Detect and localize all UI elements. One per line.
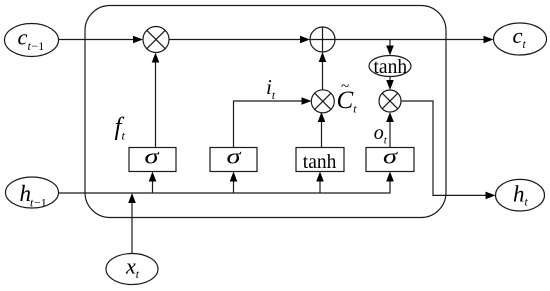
arrowhead up into tanh box [316, 172, 324, 182]
node h_t-1 ellipse [6, 177, 59, 208]
svg-text:~: ~ [341, 79, 349, 95]
wire tanh ellipse down to mult2 [389, 77, 391, 81]
svg-text:it: it [266, 75, 276, 102]
cell body rounded rectangle [85, 6, 446, 218]
arrowhead up into sigma3 box [386, 172, 394, 182]
wire tanh-box up to mult3 [321, 122, 323, 148]
wire c-line: mult1 to plus [169, 39, 301, 41]
svg-text:tanh: tanh [374, 57, 408, 78]
arrowhead into mult3 left [302, 97, 312, 105]
gate box sigma3 [366, 148, 414, 172]
arrowhead up into sigma2 box [230, 172, 238, 182]
node c_t-1 ellipse [5, 24, 59, 57]
arrowhead up into mult3 from tanh box [318, 112, 326, 122]
arrowhead into mult1 [133, 36, 143, 44]
tanh ellipse [369, 56, 411, 77]
arrowhead down into mult2 [386, 80, 394, 90]
gate box tanh [296, 148, 344, 172]
svg-text:−1: −1 [34, 195, 47, 209]
arrowhead into c_t [484, 36, 494, 44]
mult1 circle x [143, 27, 169, 53]
wire sigma3 up to mult2 [389, 122, 391, 148]
arrowhead into h_t [486, 192, 496, 200]
node c_t ellipse [494, 23, 547, 55]
plus circle [310, 27, 335, 52]
wire i-path: sigma2 up and right to mult3 [234, 101, 303, 147]
arrowhead into plus left [300, 36, 310, 44]
arrowhead up into mult2 from sigma3 [386, 112, 394, 122]
arrowhead up into plus from mult3 [319, 52, 327, 62]
svg-text:σ: σ [383, 144, 398, 169]
wire c-line: plus to c_t [335, 39, 485, 41]
wire f: sigma1 up to mult1 [155, 62, 157, 147]
svg-text:σ: σ [145, 144, 160, 169]
arrowhead up into sigma1 box [149, 172, 157, 182]
svg-text:c: c [18, 25, 28, 50]
svg-text:σ: σ [227, 144, 242, 169]
gate box sigma2 [210, 148, 257, 172]
arrowhead up into mult1 from sigma1 [152, 53, 160, 63]
mult2 circle x [379, 90, 401, 112]
arrowhead down into tanh ellipse [386, 46, 394, 56]
node h_t ellipse [496, 179, 545, 211]
mult3 circle x [311, 90, 334, 113]
wire x_t up to h-line [131, 203, 133, 254]
svg-text:tanh: tanh [303, 152, 337, 173]
wire c-line: c_t-1 to mult1 [59, 39, 135, 41]
wire branch c-line down to tanh ellipse [389, 40, 391, 47]
wire mult3 up to plus [322, 62, 324, 91]
wire h-line [59, 181, 391, 193]
svg-text:ft: ft [115, 114, 126, 143]
arrowhead x_t up into h-line [128, 193, 136, 203]
svg-text:−1: −1 [32, 39, 45, 53]
node x_t ellipse [106, 254, 158, 285]
gate box sigma1 [129, 148, 176, 172]
wire stubs up into boxes [152, 181, 154, 193]
wire output path mult2 right, down, to h_t [401, 101, 487, 195]
